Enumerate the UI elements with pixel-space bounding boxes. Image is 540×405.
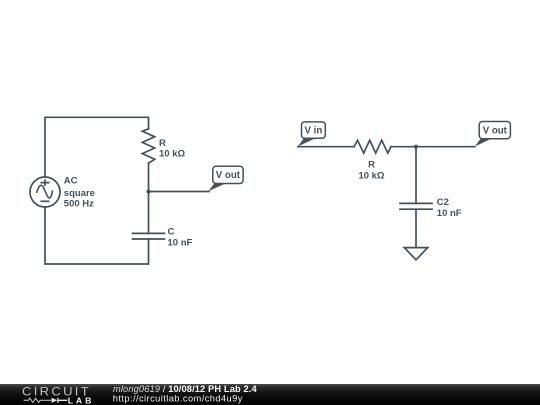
flag V in pointer xyxy=(298,138,315,146)
svg-text:mlong0619 / 10/08/12 PH Lab 2.: mlong0619 / 10/08/12 PH Lab 2.4 xyxy=(113,384,257,394)
svg-text:AC: AC xyxy=(64,176,78,187)
V1 plus sign xyxy=(41,180,48,185)
flag V out (left circuit) box xyxy=(213,166,243,183)
svg-text:500 Hz: 500 Hz xyxy=(64,199,94,210)
resistor R2 (horizontal, right circuit) xyxy=(354,140,391,153)
logo resistor zigzag and wire xyxy=(24,398,51,402)
svg-text:V out: V out xyxy=(483,126,508,137)
svg-text:http://circuitlab.com/chd4u9y: http://circuitlab.com/chd4u9y xyxy=(113,394,243,404)
V1 minus sign xyxy=(41,200,48,202)
svg-text:R: R xyxy=(368,160,375,171)
wire resistor R2 to V out tap xyxy=(391,146,475,148)
wire left loop (left circuit outer rectangle) xyxy=(45,117,149,264)
flag V in box xyxy=(302,122,326,138)
capacitor C2 top plate xyxy=(400,202,432,204)
wire capacitor C2 to ground xyxy=(415,209,417,247)
svg-text:V out: V out xyxy=(216,170,241,181)
capacitor C2 bottom plate xyxy=(400,208,432,210)
voltage source V1 (AC square 500 Hz) xyxy=(30,177,60,207)
resistor R1 (vertical, left circuit) xyxy=(142,129,154,163)
capacitor C1 bottom plate xyxy=(133,238,165,240)
flag V out (left circuit) pointer xyxy=(208,183,226,191)
svg-text:10 nF: 10 nF xyxy=(437,208,462,219)
capacitor C1 top plate xyxy=(133,232,165,234)
flag V out (right circuit) pointer xyxy=(475,138,492,146)
svg-text:square: square xyxy=(64,188,95,199)
svg-text:C2: C2 xyxy=(437,197,449,208)
svg-text:V in: V in xyxy=(305,126,323,137)
ground symbol xyxy=(404,248,427,260)
wire node to capacitor C2 xyxy=(415,147,417,204)
svg-text:10 kΩ: 10 kΩ xyxy=(159,149,185,160)
node A (junction dot, left circuit) xyxy=(146,189,150,193)
node B (junction dot, right circuit) xyxy=(414,145,418,149)
svg-text:C: C xyxy=(168,226,175,237)
wire node to V out tap xyxy=(149,191,210,193)
svg-text:10 kΩ: 10 kΩ xyxy=(358,171,384,182)
flag V out (right circuit) box xyxy=(479,122,510,139)
svg-text:10 nF: 10 nF xyxy=(168,238,193,249)
wire V in to resistor R2 xyxy=(298,146,354,148)
svg-text:R: R xyxy=(159,138,166,149)
wire resistor to capacitor (through node) xyxy=(148,163,150,233)
svg-text:LAB: LAB xyxy=(68,395,95,405)
logo diode xyxy=(52,398,58,403)
V1 sine wave xyxy=(37,185,53,197)
